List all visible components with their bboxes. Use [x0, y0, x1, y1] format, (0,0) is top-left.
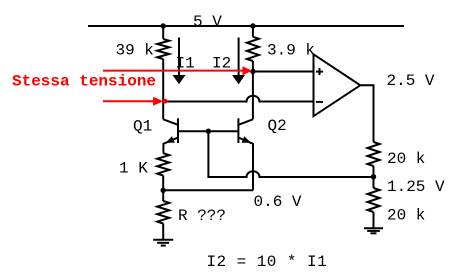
svg-text:1 K: 1 K	[119, 160, 148, 178]
svg-text:Q1: Q1	[133, 117, 152, 135]
resistor 1K	[157, 153, 169, 175]
wire 39k to Q1 collector	[162, 59, 164, 119]
wire 1K to R	[162, 176, 164, 202]
resistor 20k bottom	[368, 188, 380, 212]
ground left	[153, 239, 173, 241]
ground right	[364, 227, 383, 229]
svg-text:Stessa tensione: Stessa tensione	[12, 73, 156, 91]
resistor 3.9k	[247, 37, 259, 61]
svg-text:20 k: 20 k	[387, 150, 425, 168]
wire base Q1-Q2	[178, 130, 238, 132]
wire minus input with hop	[163, 96, 313, 102]
svg-text:3.9 k: 3.9 k	[267, 42, 315, 60]
svg-text:20 k: 20 k	[387, 207, 425, 225]
node rail-39k	[161, 23, 166, 28]
node rail-3.9k	[250, 23, 255, 28]
wire 20k to ground	[373, 212, 375, 228]
red arrowhead upper	[243, 66, 253, 75]
wire divider	[373, 166, 375, 188]
wire 5V rail	[88, 25, 404, 27]
svg-text:39 k: 39 k	[116, 42, 154, 60]
svg-text:Q2: Q2	[268, 117, 287, 135]
svg-text:1.25 V: 1.25 V	[387, 178, 445, 196]
resistor R???	[157, 201, 169, 224]
svg-text:2.5 V: 2.5 V	[387, 72, 435, 90]
wire R to ground	[162, 224, 164, 240]
red node dot	[163, 99, 168, 104]
node bases	[206, 129, 211, 134]
wire plus input	[253, 71, 314, 73]
node divider	[371, 174, 376, 179]
arrow I2	[238, 38, 240, 77]
wire emitter Q2 to node	[163, 189, 253, 191]
node 1K-R	[161, 188, 166, 193]
transistor Q1	[163, 119, 178, 125]
arrow I1	[178, 38, 180, 77]
emitter arrow Q2	[242, 136, 251, 143]
wire left branch top	[162, 26, 164, 39]
red arrow line lower	[103, 100, 154, 102]
svg-text:I2 = 10 * I1: I2 = 10 * I1	[207, 253, 328, 271]
svg-text:0.6 V: 0.6 V	[254, 193, 302, 211]
wire 3.9k to Q2 collector	[252, 61, 254, 119]
svg-text:R ???: R ???	[178, 207, 226, 225]
red arrow line upper	[103, 70, 243, 72]
wire base feedback with hop	[208, 131, 373, 177]
wire 5V to 3.9k	[252, 26, 254, 37]
wire op-amp output	[360, 85, 373, 142]
svg-text:I2: I2	[212, 55, 231, 73]
transistor Q2	[238, 119, 253, 125]
resistor 39k	[157, 39, 169, 59]
emitter arrow Q1	[166, 136, 175, 143]
svg-text:I1: I1	[176, 55, 195, 73]
red arrowhead lower	[153, 97, 163, 106]
resistor 20k top	[368, 142, 380, 166]
svg-text:5 V: 5 V	[193, 13, 222, 31]
op-amp U1	[314, 54, 361, 116]
node Q2 collector	[250, 69, 255, 74]
